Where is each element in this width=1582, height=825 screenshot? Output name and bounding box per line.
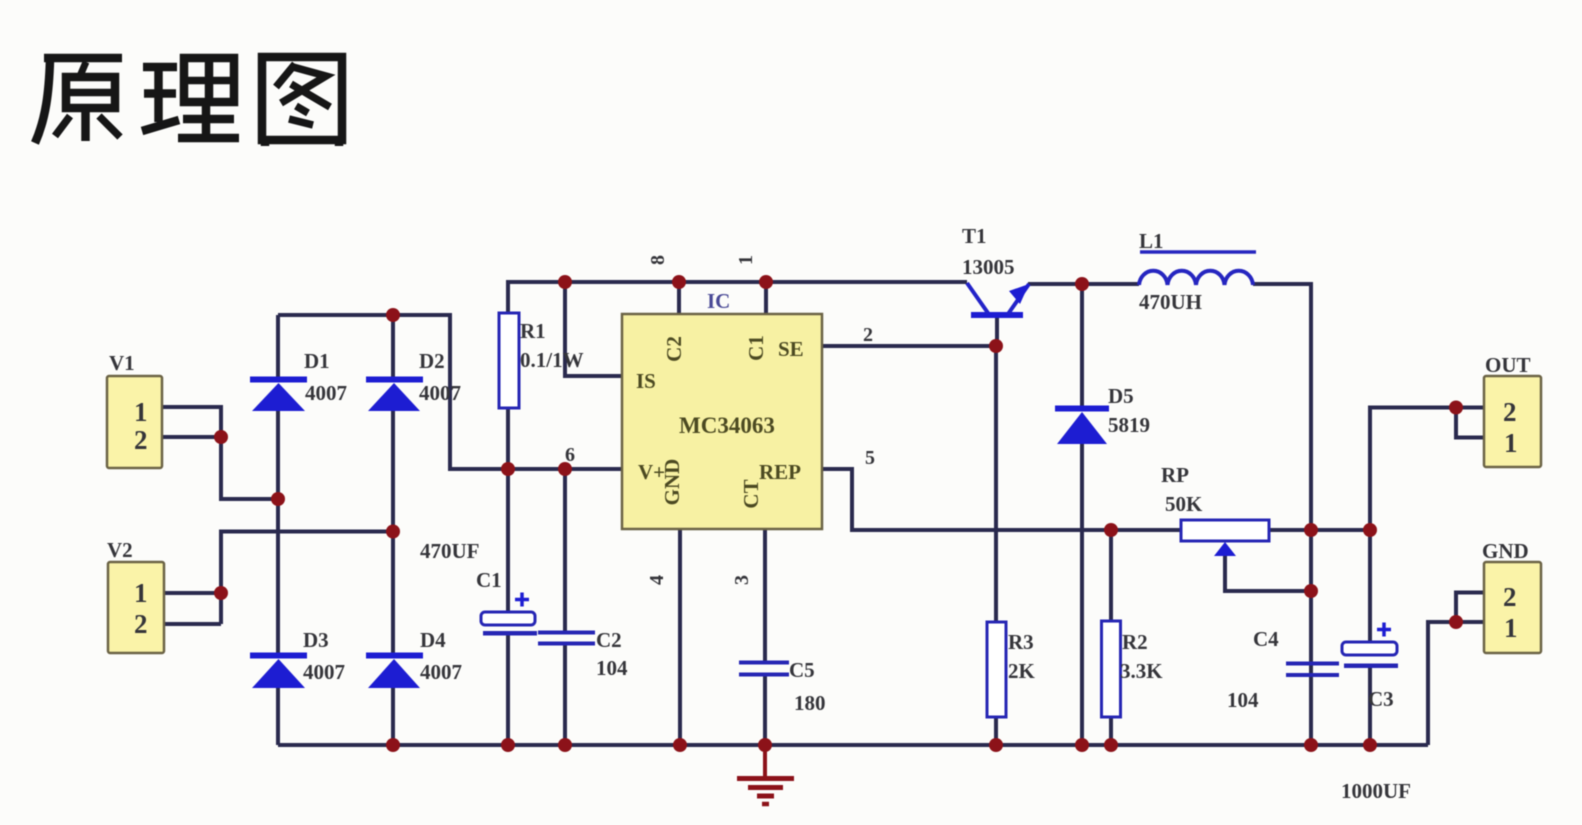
diode D1 [250,377,307,412]
node ground bus / R2 [1104,738,1118,752]
char 原 [35,58,122,143]
wire C1 bottom lead [506,634,510,745]
potentiometer RP wiper arrow [1214,542,1236,556]
svg-text:5819: 5819 [1108,413,1150,437]
wire C3 column bottom [1368,667,1372,745]
wire RP wiper stem [1225,554,1311,591]
node V+ rail / C2 [558,462,572,476]
svg-text:IS: IS [636,369,656,393]
wire REP pin5 to feedback rail [822,469,1181,530]
node ground bus / C5 and ground symbol [758,738,772,752]
wire top supply bus [508,280,967,284]
svg-text:4007: 4007 [420,660,462,684]
svg-text:C1: C1 [744,335,768,361]
wire T1 emitter to L1 [1028,282,1139,286]
svg-text:D1: D1 [304,349,330,373]
wire IC pin4 to ground bus [678,529,682,745]
svg-text:1: 1 [1504,613,1518,643]
wire D5 cathode lead [1080,284,1084,406]
svg-text:13005: 13005 [962,255,1015,279]
svg-text:D4: D4 [420,628,446,652]
capacitor C2 plates [538,631,595,646]
svg-text:1: 1 [735,255,757,265]
wire IC pin1 stub [764,282,768,314]
connector GND [1484,562,1541,653]
svg-text:T1: T1 [962,224,987,248]
wire R3 bottom lead [994,717,998,745]
node ground bus / IC pin4 [673,738,687,752]
svg-text:3.3K: 3.3K [1120,659,1163,683]
svg-text:2: 2 [1503,397,1517,427]
node V+ rail / R1 [501,462,515,476]
wire C2 bottom lead [563,645,567,745]
wire V1 pin2 [162,435,221,439]
wire C2 top lead [563,469,567,632]
capacitor C4 plates [1286,662,1339,678]
resistor R2 body [1102,621,1121,717]
svg-text:REP: REP [759,460,801,484]
diode D3 [250,653,307,689]
wire R3 top lead from base node [994,346,998,622]
node V2 into bridge right column [386,525,400,539]
op IC U1 MC34063 body [622,314,822,529]
wire OUT riser [1370,408,1484,531]
wire R2 bottom lead [1109,717,1113,745]
wire V2 to bridge node [221,532,393,625]
svg-text:GND: GND [1482,539,1529,563]
node V2 pins joined [214,586,228,600]
svg-text:104: 104 [1227,688,1259,712]
capacitor C3 electrolytic plates [1342,623,1398,669]
diode D4 [366,653,423,689]
wire bridge top bus [278,313,450,317]
svg-text:GND: GND [660,459,684,506]
wire bridge right drop to V+ rail [448,313,452,469]
node ground bus / C3 [1363,738,1377,752]
svg-text:CT: CT [739,479,763,508]
node ground bus / C1 [501,738,515,752]
wire R2 top lead [1109,530,1113,621]
svg-text:1: 1 [134,397,148,427]
svg-text:R3: R3 [1008,630,1034,654]
svg-text:C1: C1 [476,568,502,592]
svg-text:6: 6 [565,444,575,466]
connector OUT [1484,376,1541,467]
diode D5 [1055,406,1109,445]
node wiper / riser [1304,584,1318,598]
wire D1-D3 column middle [276,411,280,654]
svg-text:2: 2 [863,324,873,346]
node SE wire / T1 base / R3 [989,339,1003,353]
svg-text:4007: 4007 [419,381,461,405]
wire D5 anode to ground bus [1080,444,1084,745]
node ground bus / R3 [989,738,1003,752]
node feedback rail / R2 [1104,523,1118,537]
svg-text:470UH: 470UH [1139,290,1202,314]
wire right riser L1 down to feedback rail [1309,282,1313,530]
node ground bus / C2 [558,738,572,752]
wire C5 bottom lead [763,675,767,745]
wire D2-D4 column middle [391,411,395,654]
svg-text:IC: IC [707,289,730,313]
wire C3 column top [1368,530,1372,643]
wire T1 base stub [995,317,999,346]
node V1 pins joined [214,430,228,444]
svg-text:2K: 2K [1008,659,1036,683]
capacitor C1 electrolytic plates [481,593,537,636]
svg-text:V2: V2 [107,538,133,562]
node bridge top / D2 [386,308,400,322]
wire V2 pin2 [162,622,221,626]
svg-text:SE: SE [778,337,804,361]
node top bus / C2-IS branch [558,275,572,289]
char 图 [262,57,342,146]
node feedback rail / OUT riser [1363,523,1377,537]
svg-text:1: 1 [1504,428,1518,458]
wire GND pin2 loop [1456,593,1484,623]
wire R1 top lead from bus corner [506,280,510,313]
svg-text:MC34063: MC34063 [679,413,775,438]
svg-text:470UF: 470UF [420,539,480,563]
svg-text:D3: D3 [303,628,329,652]
svg-text:8: 8 [647,255,669,265]
resistor R1 body [499,313,519,408]
wire D3 bottom to bus corner [276,688,280,745]
node ground bus / D4 [386,738,400,752]
svg-text:4007: 4007 [303,660,345,684]
wire IC pin3 / C5 top lead [763,529,767,662]
title 原理图 (hand-drawn strokes) [35,57,342,146]
svg-text:4007: 4007 [305,381,347,405]
wire OUT pin1 loop [1456,408,1484,438]
potentiometer RP body [1181,520,1269,541]
wire D4 bottom lead [391,688,395,745]
svg-text:R2: R2 [1122,630,1148,654]
wire IC pin8 stub [677,282,681,314]
node ground bus / D5 [1075,738,1089,752]
wire SE pin2 to T1 base node [822,344,996,348]
diode D2 [366,377,423,412]
wire feedback rail right of RP [1269,528,1370,532]
wire D1 column top [276,315,280,378]
svg-text:5: 5 [865,447,875,469]
svg-text:1: 1 [134,578,148,608]
svg-text:2: 2 [1503,582,1517,612]
svg-text:D5: D5 [1108,384,1134,408]
IC pin name IS [636,335,804,508]
svg-text:4: 4 [646,575,668,585]
wire V2 pin1 [162,591,221,595]
svg-text:2: 2 [134,609,148,639]
node top bus / IC pin1 [759,275,773,289]
node T1 emitter / D5 / L1 [1075,277,1089,291]
svg-text:C3: C3 [1368,687,1394,711]
svg-text:104: 104 [596,656,628,680]
node feedback rail / L1 riser [1304,523,1318,537]
svg-text:RP: RP [1161,463,1189,487]
wire bottom ground bus [278,743,1428,747]
connector V1 [107,376,162,468]
wire R1 bottom lead [506,408,510,469]
capacitor C5 plates [739,661,789,677]
wire IS branch to IC pin6... from bus down and right [565,282,622,376]
wire L1 output to right riser [1253,282,1311,286]
wire GND pin1 to ground bus [1428,622,1484,745]
resistor R3 body [987,622,1006,717]
svg-text:R1: R1 [520,319,546,343]
connector V2 [108,562,164,653]
ground symbol [737,745,794,804]
node OUT pins joined [1449,401,1463,415]
svg-text:C2: C2 [662,336,686,362]
svg-text:2: 2 [134,425,148,455]
svg-text:V1: V1 [109,351,135,375]
svg-text:C4: C4 [1253,627,1279,651]
node ground bus / C4 [1304,738,1318,752]
wire riser through to C4 and ground bus [1309,530,1313,745]
svg-text:180: 180 [794,691,826,715]
wire C1 top lead [506,469,510,613]
svg-text:50K: 50K [1165,492,1203,516]
wire V1 to bridge node [221,437,278,499]
inductor L1 coils [1139,252,1256,285]
svg-text:1000UF: 1000UF [1341,779,1411,803]
wire V+ rail into IC [448,467,622,471]
wire D2 column top [391,315,395,378]
transistor Q1 T1 symbol [967,283,1029,318]
svg-text:D2: D2 [419,349,445,373]
svg-text:C5: C5 [789,658,815,682]
svg-text:OUT: OUT [1485,353,1531,377]
svg-text:3: 3 [731,575,753,585]
svg-text:L1: L1 [1139,229,1164,253]
node V1 into bridge left column [271,492,285,506]
node GND pins joined [1449,615,1463,629]
char 理 [142,58,239,138]
node top bus / IC pin8 [672,275,686,289]
svg-text:C2: C2 [596,628,622,652]
svg-text:0.1/1W: 0.1/1W [520,348,584,372]
wire V1 pin1 [162,407,221,437]
